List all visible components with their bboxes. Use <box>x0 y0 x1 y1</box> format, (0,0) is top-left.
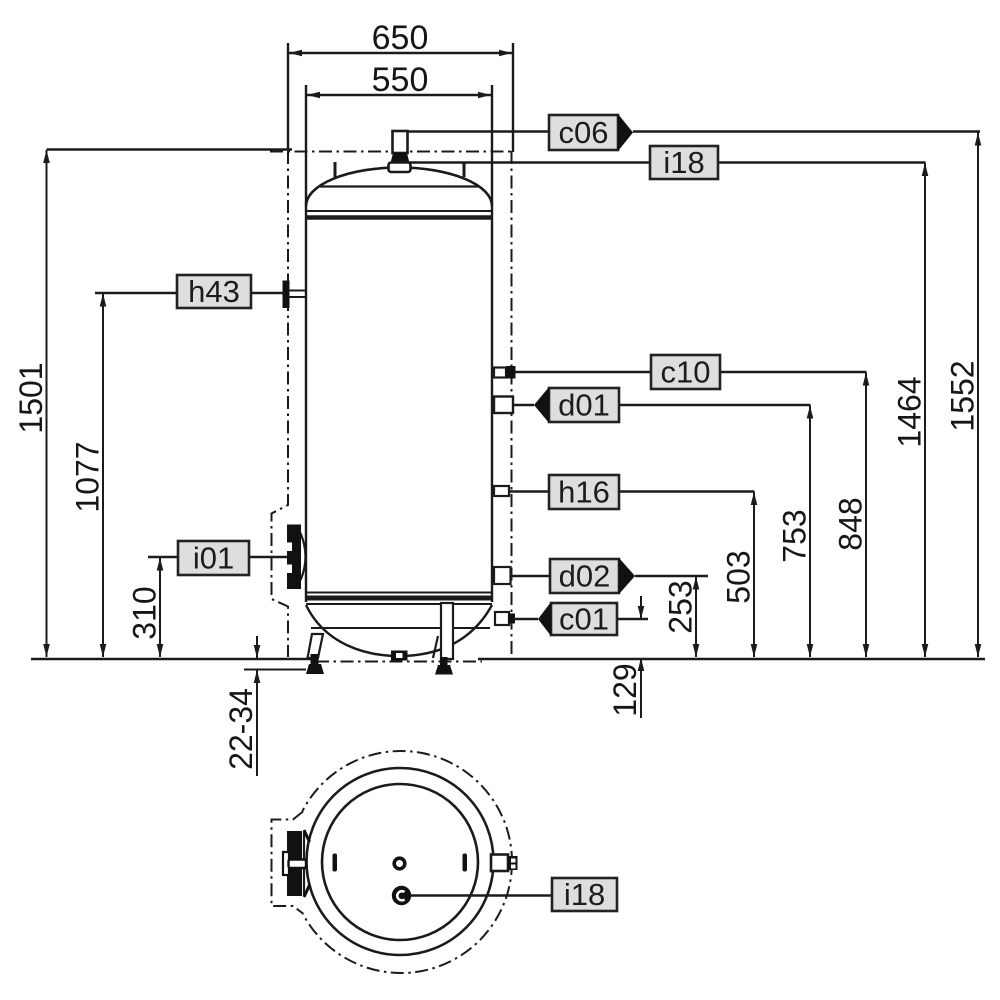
bottom dish knuckle line <box>311 627 490 629</box>
bottom dish <box>306 605 492 656</box>
leader d02 <box>511 575 708 577</box>
bottom seam thin <box>306 592 492 594</box>
svg-text:753: 753 <box>777 509 813 562</box>
svg-text:c01: c01 <box>559 602 609 637</box>
tank left wall <box>305 203 307 602</box>
svg-text:848: 848 <box>833 497 869 550</box>
leader c06 <box>407 130 980 132</box>
svg-text:c06: c06 <box>559 115 609 150</box>
svg-text:i01: i01 <box>193 541 234 576</box>
dimension 22-34 <box>223 636 306 776</box>
svg-text:503: 503 <box>721 550 757 603</box>
svg-text:650: 650 <box>372 19 429 57</box>
leader c10 <box>515 371 867 373</box>
leader i18 top <box>409 161 926 163</box>
top view i18 fitting circle <box>392 886 411 905</box>
svg-text:i18: i18 <box>564 877 605 912</box>
leader h43 <box>95 292 284 294</box>
dimension 129 <box>607 596 644 718</box>
tank dome top <box>306 168 492 207</box>
lifting lug left <box>334 162 337 177</box>
dimension 503 <box>721 492 758 657</box>
dimension 1077 <box>70 294 107 658</box>
svg-text:c10: c10 <box>661 355 711 390</box>
top view insulation chain circle <box>290 751 512 973</box>
dimension 310 <box>127 558 164 658</box>
svg-text:253: 253 <box>663 580 699 633</box>
label i18 bottom <box>552 877 617 912</box>
label c06 <box>549 114 633 151</box>
dome seam line <box>320 185 478 187</box>
label c10 <box>651 355 720 390</box>
dimension 1552 <box>945 133 982 658</box>
c01 fitting <box>495 612 515 625</box>
label d02 <box>550 558 635 594</box>
top view side fitting 3 oclock <box>491 855 518 872</box>
right foot <box>435 657 453 675</box>
patch hiding chain arc at handhole <box>256 811 303 914</box>
floor chain line under tank <box>316 661 482 663</box>
top view lug mark left <box>333 854 338 872</box>
svg-text:d01: d01 <box>558 388 610 423</box>
svg-text:129: 129 <box>607 663 643 716</box>
svg-text:1077: 1077 <box>70 441 106 512</box>
label d01 <box>534 387 619 423</box>
svg-text:1552: 1552 <box>945 360 981 431</box>
svg-text:550: 550 <box>372 61 429 99</box>
insulation top chain line <box>270 151 512 153</box>
label c01 <box>538 602 617 637</box>
label i01 <box>178 541 249 576</box>
d01 fitting <box>494 397 513 414</box>
dimension 753 <box>777 406 814 658</box>
top view tank inner circle <box>322 784 478 940</box>
svg-text:22-34: 22-34 <box>223 688 259 770</box>
svg-text:1501: 1501 <box>13 362 49 433</box>
top view handhole chain bump <box>272 812 304 914</box>
dimension 253 <box>663 577 700 658</box>
insulation jacket chain outline left (with handhole bump) <box>272 151 289 657</box>
leader c01 <box>514 618 648 620</box>
bottom seam band <box>306 596 492 601</box>
label h43 <box>177 274 251 309</box>
svg-text:d02: d02 <box>559 559 611 594</box>
i01 handhole flange <box>287 525 306 590</box>
ground baseline right <box>478 658 985 661</box>
svg-text:1464: 1464 <box>892 376 928 447</box>
svg-text:h16: h16 <box>558 475 610 510</box>
dimension 848 <box>833 373 870 658</box>
top view tank outer circle <box>307 768 494 955</box>
lifting lug right <box>463 162 466 177</box>
label h16 <box>549 475 619 510</box>
bottom seam lower line <box>306 603 492 605</box>
drain fitting bottom center <box>391 651 408 661</box>
top nipple fitting <box>389 131 411 172</box>
left leg <box>308 634 324 658</box>
dimension 1501 <box>13 150 50 657</box>
dimension 550 <box>306 61 492 204</box>
reference line top (1501 level) <box>47 148 293 150</box>
d02 fitting <box>494 567 511 584</box>
svg-text:i18: i18 <box>663 145 704 180</box>
right leg <box>433 603 453 659</box>
svg-text:310: 310 <box>127 586 163 639</box>
svg-text:h43: h43 <box>188 274 240 309</box>
leader i18 bottom <box>410 894 552 896</box>
top view center vent circle <box>394 858 405 869</box>
h43 nozzle <box>283 281 307 309</box>
h16 fitting <box>494 486 509 496</box>
tank right wall <box>491 203 493 602</box>
leader i01 <box>148 556 288 558</box>
dimension 650 <box>288 19 513 152</box>
dimension 1464 <box>892 163 929 657</box>
leader h16 <box>509 490 755 492</box>
c10 fitting <box>494 366 516 379</box>
leader d01 <box>513 404 811 406</box>
top view handhole flange <box>283 830 310 897</box>
insulation jacket chain outline right <box>511 151 513 657</box>
ground baseline left <box>31 658 313 661</box>
top view lug mark right <box>463 854 468 872</box>
label i18 top <box>650 145 718 180</box>
left foot <box>306 654 324 674</box>
shoulder seam band <box>306 215 492 220</box>
shoulder seam thin <box>306 210 492 212</box>
